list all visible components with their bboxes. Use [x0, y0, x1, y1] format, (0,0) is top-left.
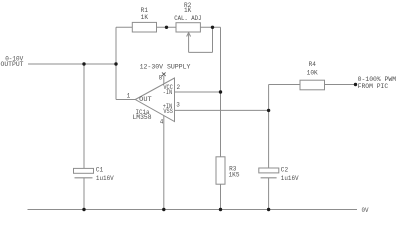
svg-text:10K: 10K — [307, 70, 318, 77]
junction dot input/left vertical — [114, 62, 117, 65]
resistor R1 — [132, 22, 156, 32]
junction dot wiper to R2 right — [211, 26, 214, 29]
svg-text:R4: R4 — [309, 61, 317, 68]
svg-text:FROM PIC: FROM PIC — [358, 83, 389, 90]
wire to R1 left — [116, 26, 132, 28]
wire R1 to R2 — [157, 26, 177, 28]
svg-text:R1: R1 — [141, 7, 149, 14]
svg-text:1u16V: 1u16V — [96, 175, 114, 182]
wire bottom 0V rail — [28, 209, 358, 211]
R2 wiper arrowhead — [187, 33, 191, 37]
svg-text:1: 1 — [127, 93, 131, 100]
svg-text:1K: 1K — [184, 7, 192, 14]
svg-text:C2: C2 — [281, 167, 289, 174]
svg-text:C1: C1 — [96, 167, 104, 174]
svg-text:1K: 1K — [141, 14, 149, 21]
junction dot pin2 node — [219, 90, 222, 93]
svg-text:OUT: OUT — [139, 96, 152, 103]
wire +IN column vertical — [268, 85, 270, 169]
capacitor C2 plus plate — [259, 168, 279, 173]
wire vertical net -IN column — [220, 27, 222, 157]
capacitor C2 minus plate — [261, 177, 277, 179]
wire pin4 stub to rail — [163, 116, 165, 210]
svg-text:OUTPUT: OUTPUT — [1, 61, 24, 68]
wire R3 bottom to rail — [220, 184, 222, 209]
junction dot rail R3 — [219, 208, 222, 211]
wire wiper loop right up — [212, 27, 214, 52]
resistor R2 potentiometer body — [176, 23, 200, 32]
svg-text:1K5: 1K5 — [229, 172, 240, 179]
resistor R4 — [300, 80, 325, 90]
wire wiper stub down — [188, 34, 190, 53]
wire op-amp output pin1 — [116, 99, 135, 101]
wire C2 bottom to rail — [268, 178, 270, 210]
wire input 0-10V row — [28, 63, 116, 65]
resistor R3 — [216, 157, 225, 184]
junction dot pin3 node — [267, 109, 270, 112]
svg-text:3: 3 — [176, 102, 180, 109]
svg-text:-IN: -IN — [163, 89, 173, 96]
wire C1 bottom to rail — [83, 178, 85, 210]
svg-text:2: 2 — [177, 84, 181, 91]
junction dot rail C2 — [267, 208, 270, 211]
junction dot rail pin4 — [162, 208, 165, 211]
svg-text:1u16V: 1u16V — [281, 175, 299, 182]
svg-text:0V: 0V — [362, 207, 369, 214]
junction dot input/C1 — [82, 62, 85, 65]
svg-text:CAL. ADJ: CAL. ADJ — [174, 15, 201, 22]
svg-text:LM358: LM358 — [133, 114, 152, 121]
junction dot PWM input node — [354, 83, 357, 86]
wire left vertical to R1 and op-amp output — [115, 27, 117, 99]
svg-text:VSS: VSS — [163, 108, 173, 115]
wire corner to R4 left — [269, 84, 300, 86]
wire pin3 +IN — [175, 109, 269, 111]
svg-text:8: 8 — [159, 75, 163, 82]
capacitor C1 plus plate — [74, 168, 94, 173]
capacitor C1 minus plate — [75, 177, 93, 179]
svg-text:12-30V SUPPLY: 12-30V SUPPLY — [140, 63, 191, 70]
junction dot rail C1 — [82, 208, 85, 211]
wire R2 right to corner — [200, 26, 220, 28]
wire wiper loop bottom — [189, 51, 213, 53]
supply X symbol — [162, 72, 166, 76]
wire R4 right to PWM node — [325, 84, 356, 86]
op-amp IC1a triangle — [135, 78, 174, 122]
wire pin2 -IN — [175, 91, 221, 93]
wire C1 column top — [83, 64, 85, 168]
wire pin8 supply stub — [163, 76, 165, 84]
svg-text:4: 4 — [160, 119, 164, 126]
junction dot R1-R2 — [165, 26, 168, 29]
